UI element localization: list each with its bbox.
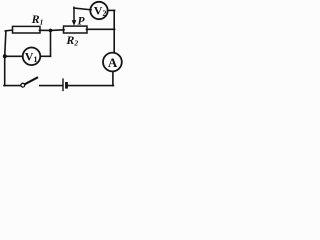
svg-text:A: A [108, 55, 118, 70]
svg-text:P: P [78, 16, 86, 28]
